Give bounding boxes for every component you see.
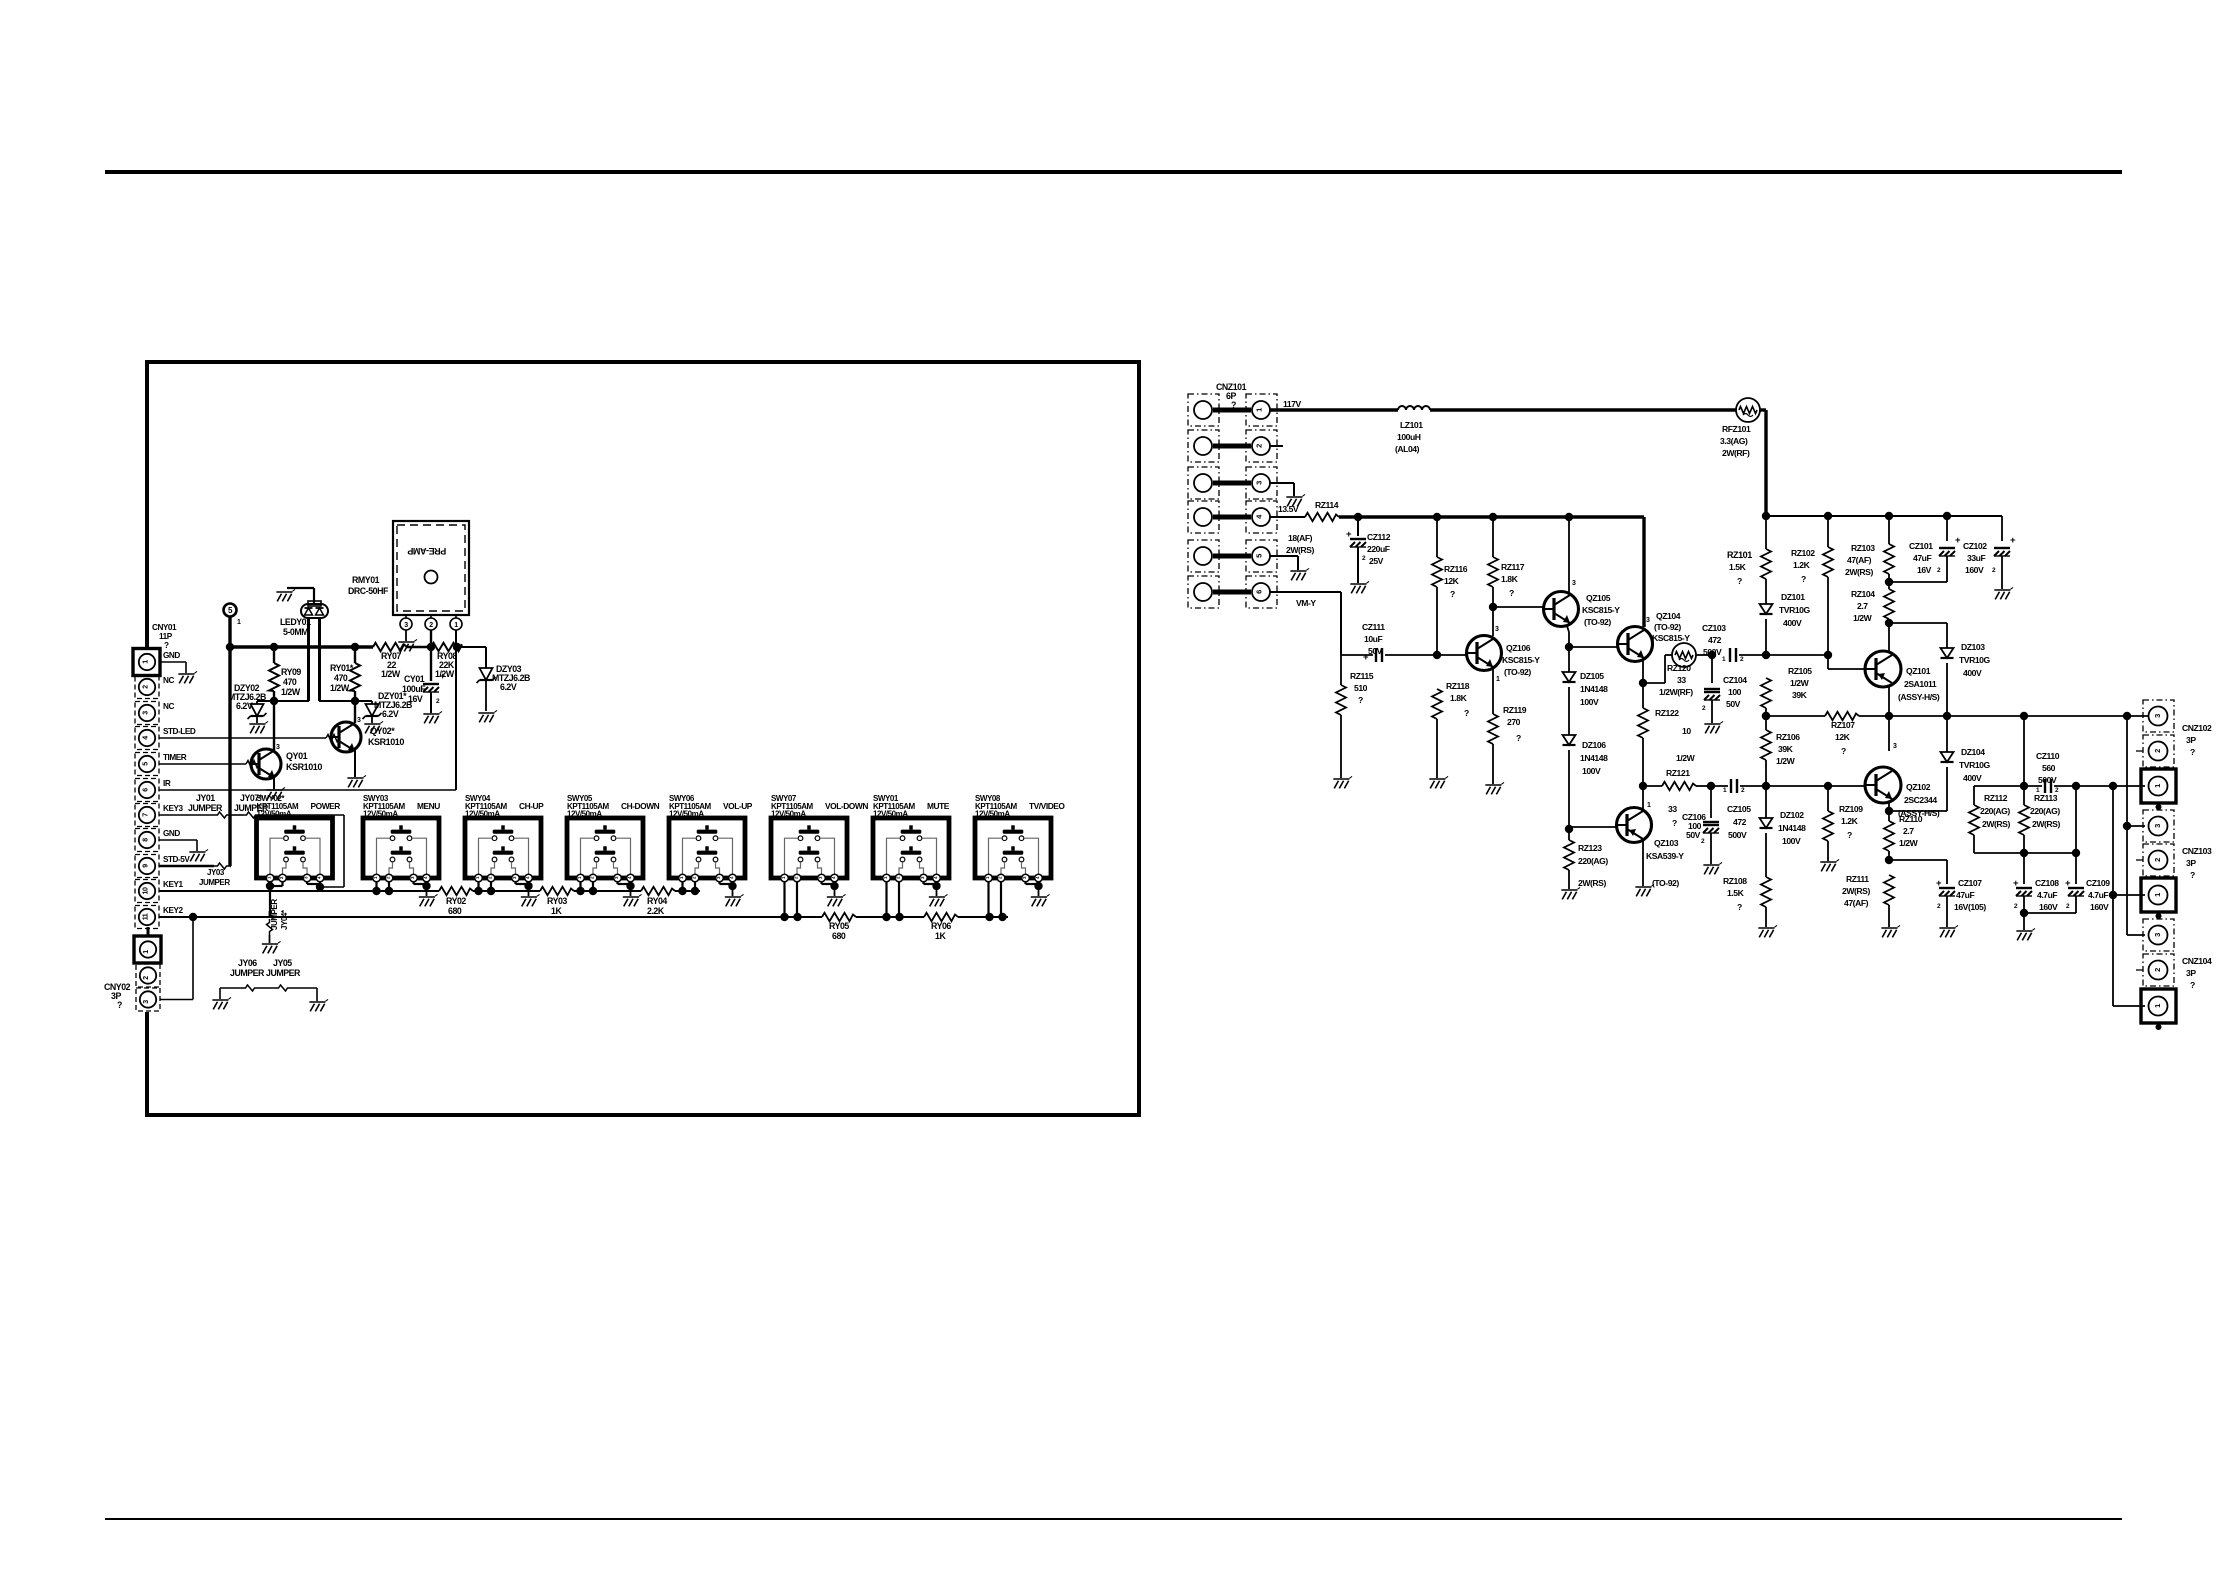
svg-text:2W(RS): 2W(RS) xyxy=(1982,819,2010,829)
resistor RY06 1K xyxy=(924,913,958,921)
svg-text:1: 1 xyxy=(143,660,150,664)
svg-text:JUMPER: JUMPER xyxy=(188,803,223,813)
svg-text:1K: 1K xyxy=(551,906,562,916)
svg-text:220(AG): 220(AG) xyxy=(1980,806,2010,816)
svg-text:2: 2 xyxy=(1255,444,1264,448)
wire bus RY07-RY08 xyxy=(407,646,431,648)
RMY01 pin 3 xyxy=(405,615,407,618)
ground (DZY03) xyxy=(478,710,497,722)
svg-text:JUMPER: JUMPER xyxy=(230,968,265,978)
svg-text:510: 510 xyxy=(1354,683,1368,693)
svg-text:RZ111: RZ111 xyxy=(1846,874,1869,884)
svg-text:1: 1 xyxy=(454,622,458,629)
RMY01 pin 2 xyxy=(430,615,432,618)
svg-text:RZ122: RZ122 xyxy=(1655,708,1679,718)
switch SWY03 pin wiring xyxy=(375,882,377,891)
keyboard board outline box xyxy=(147,362,1139,1115)
svg-text:STD-LED: STD-LED xyxy=(163,727,196,736)
svg-text:1: 1 xyxy=(1496,676,1500,683)
diode DZ103 TVR10G 400V xyxy=(1946,623,1948,648)
svg-text:QZ104: QZ104 xyxy=(1656,611,1681,621)
svg-text:RZ105: RZ105 xyxy=(1788,666,1812,676)
svg-text:1.2K: 1.2K xyxy=(1793,560,1811,570)
svg-text:3P: 3P xyxy=(2186,968,2196,978)
resistor RY01* 470 1/2W xyxy=(354,647,356,663)
svg-text:IR: IR xyxy=(163,779,171,788)
resistor RZ102 1.2K xyxy=(1827,516,1829,547)
ground (RZ109) xyxy=(1820,859,1839,871)
svg-text:RZ121: RZ121 xyxy=(1666,768,1690,778)
svg-text:400V: 400V xyxy=(1783,618,1802,628)
connector CNY01 pin 4 (STD-LED) xyxy=(135,727,159,750)
svg-text:3: 3 xyxy=(2153,933,2162,937)
ground (CZ107) xyxy=(1939,925,1958,937)
svg-text:1: 1 xyxy=(1255,408,1264,412)
svg-text:1: 1 xyxy=(2153,893,2162,897)
svg-text:4: 4 xyxy=(143,736,150,740)
wire IR net xyxy=(159,789,456,791)
svg-text:RFZ101: RFZ101 xyxy=(1722,424,1751,434)
svg-text:25V: 25V xyxy=(1369,556,1384,566)
svg-text:8: 8 xyxy=(143,838,150,842)
svg-text:RZ106: RZ106 xyxy=(1776,732,1800,742)
svg-text:4.7uF: 4.7uF xyxy=(2037,890,2057,900)
svg-text:RZ104: RZ104 xyxy=(1851,589,1875,599)
svg-text:1/2W: 1/2W xyxy=(1853,613,1873,623)
svg-text:100V: 100V xyxy=(1580,697,1599,707)
svg-text:NC: NC xyxy=(163,676,174,685)
svg-text:2SC2344: 2SC2344 xyxy=(1904,795,1937,805)
ground (SWY08) xyxy=(1031,894,1050,906)
resistor RZ116 12K xyxy=(1436,517,1438,557)
svg-text:3: 3 xyxy=(143,1000,150,1004)
svg-text:2: 2 xyxy=(2153,749,2162,753)
svg-text:3: 3 xyxy=(2153,824,2162,828)
ground (RZ119) xyxy=(1485,782,1504,794)
connector CNY02 pin 2 xyxy=(136,964,160,987)
capacitor CZ107 47uF 16V(105) xyxy=(1946,860,1948,884)
connector CNZ102 pin1 index dot xyxy=(2156,804,2162,810)
svg-text:1N4148: 1N4148 xyxy=(1580,684,1608,694)
svg-text:2W(RS): 2W(RS) xyxy=(1842,886,1870,896)
ground (QZ103) xyxy=(1635,884,1654,896)
wire CNZ101 pin 4 link bar xyxy=(1213,515,1251,520)
svg-text:RY06: RY06 xyxy=(931,921,951,931)
svg-text:DZ102: DZ102 xyxy=(1780,810,1804,820)
connector CNZ103 pin 1 xyxy=(2141,878,2176,912)
ground (RZ123) xyxy=(1561,887,1580,899)
resistor RZ110 2.7 1/2W xyxy=(1888,811,1890,821)
svg-text:2: 2 xyxy=(143,976,150,980)
svg-text:3: 3 xyxy=(404,622,408,629)
wire STD-LED to QY02 base xyxy=(159,737,326,739)
svg-text:472: 472 xyxy=(1708,635,1722,645)
wire VM-Y from pin6 xyxy=(1270,591,1341,593)
resistor RZ120 33 1/2W(RF) xyxy=(1672,643,1696,667)
svg-text:?: ? xyxy=(1672,818,1677,828)
svg-text:?: ? xyxy=(2190,870,2195,880)
svg-text:KSC815-Y: KSC815-Y xyxy=(1502,655,1540,665)
svg-text:RY03: RY03 xyxy=(547,896,567,906)
wire CZ110 node xyxy=(1974,785,2024,787)
connector CNY01 pin 1 (GND) xyxy=(133,649,160,676)
jumper JY04* with ground xyxy=(269,911,271,917)
wire QZ104 emitter xyxy=(1642,659,1644,683)
wire bus to DZY03 xyxy=(459,646,486,648)
wire CNZ101 pin 2 link bar xyxy=(1213,444,1251,449)
connector CNZ104 pin 2 xyxy=(2143,954,2174,986)
connector CNY01 pin 2 (NC) xyxy=(135,676,159,699)
wire junction row y701 right xyxy=(319,700,372,702)
svg-text:JUMPER: JUMPER xyxy=(270,899,279,930)
wire output column B xyxy=(2126,716,2128,935)
wire STD-5V (pin9) with jumper JY03 xyxy=(159,865,214,867)
switch SWY08 pin wiring xyxy=(987,882,989,917)
svg-text:KEY3: KEY3 xyxy=(163,804,183,813)
zener diode DZY01* MTZJ6.2B 6.2V xyxy=(371,701,373,704)
svg-text:RZ117: RZ117 xyxy=(1501,562,1525,572)
wire CNZ101 pin 5 link bar xyxy=(1213,554,1251,559)
resistor RZ107 12K xyxy=(1825,712,1859,720)
svg-text:100V: 100V xyxy=(1582,766,1601,776)
ground (SWY05) xyxy=(623,894,642,906)
svg-text:1.5K: 1.5K xyxy=(1727,888,1745,898)
wire CNZ101 pin3 to ground xyxy=(1270,482,1294,484)
connector CNZ102 pin 3 xyxy=(2143,700,2174,732)
resistor RZ119 270 xyxy=(1488,714,1498,744)
svg-text:RZ113: RZ113 xyxy=(2034,793,2058,803)
svg-text:QY01: QY01 xyxy=(286,751,308,761)
svg-text:DZ103: DZ103 xyxy=(1961,642,1985,652)
wire right rail xyxy=(1766,515,2002,517)
svg-text:RZ107: RZ107 xyxy=(1831,720,1855,730)
svg-text:2: 2 xyxy=(2153,968,2162,972)
svg-text:1/2W: 1/2W xyxy=(1776,756,1796,766)
ground (CZ104) xyxy=(1704,721,1723,733)
svg-text:RY09: RY09 xyxy=(281,667,301,677)
ground (CY01) xyxy=(423,711,442,723)
svg-text:33uF: 33uF xyxy=(1967,553,1985,563)
resistor RZ123 220(AG) 2W(RS) xyxy=(1568,829,1570,840)
svg-text:680: 680 xyxy=(832,931,846,941)
svg-text:16V: 16V xyxy=(1917,565,1932,575)
wire CZ103 node to RZ102 xyxy=(1766,654,1828,656)
connector CNZ104 pin 3 xyxy=(2143,919,2174,951)
svg-text:6.2V: 6.2V xyxy=(382,709,399,719)
resistor RY03 1K xyxy=(540,887,574,895)
ground (RZ111) xyxy=(1881,925,1900,937)
ground (SWY04) xyxy=(521,894,540,906)
svg-text:RMY01: RMY01 xyxy=(352,575,380,585)
svg-text:QZ105: QZ105 xyxy=(1586,593,1611,603)
resistor RZ101 1.5K xyxy=(1765,516,1767,549)
svg-text:QZ103: QZ103 xyxy=(1654,838,1679,848)
node 5 terminal xyxy=(224,604,237,617)
svg-text:RZ119: RZ119 xyxy=(1503,705,1527,715)
wire CZ109 column top xyxy=(2075,786,2077,853)
svg-text:3P: 3P xyxy=(2186,858,2196,868)
connector CNZ101 pin 4 xyxy=(1188,501,1219,533)
svg-text:KSA539-Y: KSA539-Y xyxy=(1646,851,1684,861)
svg-text:16V(105): 16V(105) xyxy=(1954,902,1986,912)
svg-text:KSC815-Y: KSC815-Y xyxy=(1582,605,1620,615)
svg-text:?: ? xyxy=(2190,747,2195,757)
svg-text:4.7uF: 4.7uF xyxy=(2088,890,2108,900)
svg-text:RZ115: RZ115 xyxy=(1350,671,1374,681)
wire LED left lead xyxy=(307,618,310,701)
resistor RZ113 220(AG) 2W(RS) xyxy=(2023,786,2025,805)
svg-text:(TO-92): (TO-92) xyxy=(1504,667,1531,677)
svg-text:1/2W: 1/2W xyxy=(435,669,455,679)
LED LEDY01 5-0MM xyxy=(308,601,321,606)
switch SWY07 pin wiring xyxy=(783,882,785,917)
svg-text:11P: 11P xyxy=(159,632,173,641)
svg-text:160V: 160V xyxy=(2090,902,2109,912)
svg-text:NC: NC xyxy=(163,702,174,711)
svg-text:2: 2 xyxy=(2153,858,2162,862)
svg-text:2: 2 xyxy=(143,685,150,689)
ground (DZY01*) xyxy=(364,721,383,733)
svg-text:?: ? xyxy=(1737,576,1742,586)
svg-text:?: ? xyxy=(1737,902,1742,912)
svg-text:RZ101: RZ101 xyxy=(1727,550,1752,560)
svg-text:3P: 3P xyxy=(2186,735,2196,745)
svg-text:+: + xyxy=(1955,535,1961,546)
svg-text:CY01: CY01 xyxy=(404,674,425,684)
svg-text:CNZ104: CNZ104 xyxy=(2182,956,2212,966)
svg-text:QZ102: QZ102 xyxy=(1906,782,1931,792)
svg-text:CH-DOWN: CH-DOWN xyxy=(621,801,660,811)
svg-text:2W(RS): 2W(RS) xyxy=(1286,545,1314,555)
jumper JY03 xyxy=(214,863,230,869)
wire CNY01 pin1 to ground xyxy=(160,661,186,663)
svg-text:13.5V: 13.5V xyxy=(1278,504,1299,514)
svg-text:3: 3 xyxy=(1572,580,1576,587)
wire QZ105 emitter node xyxy=(1567,626,1569,632)
svg-text:PRE-AMP: PRE-AMP xyxy=(407,546,446,556)
ground (CZ106) xyxy=(1703,862,1722,874)
transistor QY02* KSR1010 xyxy=(354,701,356,723)
resistor RZ118 1.8K xyxy=(1432,689,1442,719)
capacitor CZ112 220uF 25V xyxy=(1357,517,1359,536)
diode DZ101 TVR10G 400V xyxy=(1760,604,1773,614)
svg-text:50V: 50V xyxy=(1726,699,1741,709)
svg-text:TVR10G: TVR10G xyxy=(1959,655,1990,665)
svg-text:RY01*: RY01* xyxy=(330,663,354,673)
wire KEY3 drop to POWER switch xyxy=(343,815,345,887)
svg-text:RZ110: RZ110 xyxy=(1899,814,1923,824)
wire CZ101 bottom link xyxy=(1889,581,1947,583)
wire CNZ101 pin5 to ground xyxy=(1270,555,1298,557)
svg-text:CNZ102: CNZ102 xyxy=(2182,723,2212,733)
svg-text:7: 7 xyxy=(143,813,150,817)
svg-text:1.8K: 1.8K xyxy=(1450,693,1468,703)
wire CNY02 pin3 to KEY2 xyxy=(160,999,193,1001)
svg-text:VM-Y: VM-Y xyxy=(1296,598,1316,608)
wire RZ112/RZ113 bottom link xyxy=(1974,852,2076,854)
svg-text:560: 560 xyxy=(2042,763,2056,773)
wire QZ101 base xyxy=(1828,668,1865,670)
svg-text:STD-5V: STD-5V xyxy=(163,855,190,864)
svg-text:KSR1010: KSR1010 xyxy=(368,737,404,747)
capacitor CZ101 47uF 16V xyxy=(1946,516,1948,541)
wire QZ106 base xyxy=(1437,654,1467,656)
resistor RY08 22K 1/2W xyxy=(431,643,462,651)
svg-text:DRC-50HF: DRC-50HF xyxy=(348,586,389,596)
svg-text:TVR10G: TVR10G xyxy=(1779,605,1810,615)
svg-text:18(AF): 18(AF) xyxy=(1288,533,1313,543)
resistor RY05 680 xyxy=(822,913,856,921)
svg-text:(TO-92): (TO-92) xyxy=(1652,878,1679,888)
ground (QY01) xyxy=(266,787,285,799)
svg-text:RZ109: RZ109 xyxy=(1839,804,1863,814)
resistor RZ108 1.5K xyxy=(1761,877,1771,907)
wire QY02 emitter to ground xyxy=(354,750,356,777)
resistor RY09 470 1/2W xyxy=(273,647,275,663)
transistor QZ105 KSC815-Y (TO-92) xyxy=(1544,592,1579,627)
svg-text:1/2W: 1/2W xyxy=(281,687,301,697)
connector CNZ103 pin 3 xyxy=(2143,810,2174,842)
wire KEY2 net xyxy=(159,916,822,918)
svg-text:+: + xyxy=(440,671,445,681)
svg-text:RZ120: RZ120 xyxy=(1667,663,1691,673)
wire RZ104 node to DZ103 xyxy=(1889,622,1947,624)
svg-text:?: ? xyxy=(117,1000,122,1010)
svg-text:2W(RS): 2W(RS) xyxy=(1845,567,1873,577)
svg-text:DZ101: DZ101 xyxy=(1781,592,1805,602)
jumper JY07* xyxy=(243,812,259,818)
wire RMY01 pin3 to ground xyxy=(405,630,407,641)
svg-text:472: 472 xyxy=(1733,817,1747,827)
svg-text:?: ? xyxy=(164,641,169,650)
wire CNZ103 pin1 link xyxy=(2113,894,2145,896)
resistor RY04 2.2K xyxy=(641,887,675,895)
svg-text:10: 10 xyxy=(1682,726,1691,736)
svg-text:3: 3 xyxy=(1495,626,1499,633)
switch SWY04 pin wiring xyxy=(477,882,479,891)
zener diode DZY03 MTZJ6.2B 6.2V xyxy=(480,668,493,680)
svg-text:1N4148: 1N4148 xyxy=(1580,753,1608,763)
wire QZ101 emitter to mid rail xyxy=(1888,687,1890,716)
svg-text:220(AG): 220(AG) xyxy=(1578,856,1608,866)
resistor RZ111 2W(RS) 47(AF) xyxy=(1884,875,1894,905)
svg-text:?: ? xyxy=(2190,980,2195,990)
bottom rule xyxy=(105,1518,2122,1520)
wire mid-rail drop to CZ110 node xyxy=(2023,716,2025,786)
ground (RMY01 pin3) xyxy=(398,639,417,651)
svg-text:(ASSY-H/S): (ASSY-H/S) xyxy=(1898,692,1940,702)
resistor RZ105 1/2W 39K xyxy=(1761,678,1771,708)
svg-text:500V: 500V xyxy=(1703,647,1722,657)
connector CNZ103 pin 2 xyxy=(2143,844,2174,876)
svg-text:1/2W: 1/2W xyxy=(1790,678,1810,688)
svg-text:3: 3 xyxy=(1646,617,1650,624)
svg-text:RY05: RY05 xyxy=(829,921,849,931)
wire QZ104 base xyxy=(1569,646,1618,648)
svg-text:CZ105: CZ105 xyxy=(1727,804,1751,814)
top rule xyxy=(105,170,2122,174)
ground (CNY01 pin8) xyxy=(189,849,208,861)
svg-text:100: 100 xyxy=(1728,687,1742,697)
svg-text:TV/VIDEO: TV/VIDEO xyxy=(1029,801,1065,811)
svg-text:DZ105: DZ105 xyxy=(1580,671,1604,681)
diode DZ105 1N4148 100V xyxy=(1563,672,1576,682)
svg-text:1/2W: 1/2W xyxy=(1899,838,1919,848)
connector CNY01 pin 11 (KEY2) xyxy=(135,906,159,929)
connector CNZ104 pin1 index dot xyxy=(2156,1024,2162,1030)
wire LED right lead xyxy=(318,618,321,701)
ground (RZ108) xyxy=(1758,925,1777,937)
transistor QZ102 2SC2344 (ASSY-H/S) xyxy=(1888,716,1890,751)
IR receiver module RMY01 DRC-50HF xyxy=(393,521,469,615)
ground (DZY02) xyxy=(249,721,268,733)
svg-text:LEDY01: LEDY01 xyxy=(280,617,311,627)
wire QZ102 base xyxy=(1828,785,1865,787)
svg-text:500V: 500V xyxy=(1728,830,1747,840)
svg-text:MUTE: MUTE xyxy=(927,801,950,811)
svg-text:47uF: 47uF xyxy=(1956,890,1974,900)
capacitor CZ106 100 50V xyxy=(1710,786,1712,818)
wire QZ102 emitter node xyxy=(1888,803,1890,811)
svg-text:GND: GND xyxy=(163,651,180,660)
ground (LED top) xyxy=(276,589,295,601)
connector CNY02 pin 3 xyxy=(136,988,160,1011)
ground (SWY01) xyxy=(929,894,948,906)
svg-text:CZ107: CZ107 xyxy=(1958,878,1982,888)
svg-text:33: 33 xyxy=(1668,804,1677,814)
svg-text:6.2V: 6.2V xyxy=(500,682,517,692)
svg-text:11: 11 xyxy=(143,913,150,920)
capacitor CZ104 100 50V xyxy=(1711,655,1713,683)
wire CNZ101 pin 6 link bar xyxy=(1213,590,1251,595)
wire 5V bus xyxy=(230,645,373,648)
resistor RZ109 1.2K xyxy=(1827,786,1829,811)
wire 117V drop xyxy=(1764,410,1767,516)
svg-text:QZ106: QZ106 xyxy=(1506,643,1531,653)
svg-text:RZ116: RZ116 xyxy=(1444,564,1468,574)
wire CZ105 node to QZ102 base xyxy=(1766,785,1828,787)
svg-text:160V: 160V xyxy=(1965,565,1984,575)
diode DZ102 1N4148 100V xyxy=(1765,786,1767,818)
capacitor CZ102 33uF 160V xyxy=(2001,516,2003,541)
svg-text:CZ110: CZ110 xyxy=(2036,751,2060,761)
svg-text:DZ104: DZ104 xyxy=(1961,747,1985,757)
svg-text:1: 1 xyxy=(1647,802,1651,809)
connector CNZ101 pin 1 xyxy=(1188,394,1219,426)
svg-text:JY03: JY03 xyxy=(207,868,225,877)
transistor QY01 KSR1010 xyxy=(273,701,275,750)
wire RMY01 pin2 down to bus xyxy=(430,630,432,647)
svg-text:100uF: 100uF xyxy=(402,684,426,694)
resistor RZ115 510 xyxy=(1340,655,1342,685)
svg-text:400V: 400V xyxy=(1963,668,1982,678)
svg-text:CNY01: CNY01 xyxy=(152,623,177,632)
svg-text:2W(RS): 2W(RS) xyxy=(2032,819,2060,829)
svg-text:3: 3 xyxy=(1893,743,1897,750)
connector CNY01 pin 9 (STD-5V) xyxy=(135,855,159,878)
svg-text:470: 470 xyxy=(334,673,348,683)
svg-text:RZ118: RZ118 xyxy=(1446,681,1470,691)
ground (CNZ101 pin5) xyxy=(1290,568,1309,580)
ground (RZ118) xyxy=(1429,776,1448,788)
wire RMY01 pin1 riser to IR line xyxy=(455,630,457,647)
transistor QZ101 2SA1011 (ASSY-H/S) xyxy=(1865,651,1901,687)
svg-text:?: ? xyxy=(1847,830,1852,840)
wire 13.5V rail xyxy=(1339,515,1644,518)
connector CNZ101 pin 5 xyxy=(1188,540,1219,572)
svg-text:2W(RS): 2W(RS) xyxy=(1578,878,1606,888)
svg-text:1/2W(RF): 1/2W(RF) xyxy=(1659,687,1693,697)
